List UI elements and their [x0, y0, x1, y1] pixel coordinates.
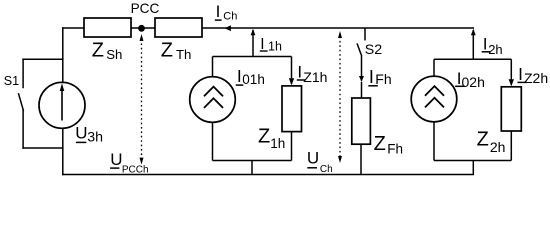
svg-text:01h: 01h [242, 72, 265, 87]
current arrow I_Ch on top bus [225, 25, 231, 31]
wire down to I02h circle [433, 59, 435, 76]
resistor Z_Th [155, 18, 202, 37]
svg-text:Z2h: Z2h [524, 70, 548, 86]
svg-text:S2: S2 [365, 42, 382, 58]
resistor Z_Fh [352, 98, 371, 144]
node PCC dot [138, 25, 145, 32]
svg-text:Ch: Ch [320, 164, 333, 175]
current source I01h circle [190, 77, 236, 123]
svg-text:PCC: PCC [131, 1, 160, 16]
wire down to I01h circle [212, 57, 214, 77]
svg-text:I: I [369, 67, 374, 87]
svg-text:I: I [297, 62, 302, 81]
svg-text:Sh: Sh [106, 47, 122, 62]
voltage source U3h arrow [61, 90, 63, 121]
svg-text:Fh: Fh [375, 71, 391, 87]
resistor Z_2h [501, 87, 521, 131]
wire left pair bottom horizontal [213, 160, 292, 162]
svg-text:Z: Z [374, 133, 386, 155]
svg-text:I: I [216, 2, 221, 21]
wire S2 upper stub [364, 28, 366, 41]
wire right pair down to bus [472, 161, 474, 175]
wire S1 lower vertical [22, 110, 24, 148]
svg-text:2h: 2h [488, 42, 502, 57]
wire left vertical lower [62, 128, 64, 174]
svg-text:1h: 1h [270, 136, 285, 151]
wire I_Z1h vertical [291, 57, 293, 85]
voltage arrow U_PCCh dashed [141, 39, 143, 159]
wire I_Fh vertical upper [361, 56, 363, 80]
svg-text:Z: Z [92, 39, 104, 61]
current arrow I_Z1h head [289, 78, 294, 85]
switch S2 blade [357, 43, 362, 56]
resistor Z_1h [282, 86, 302, 132]
current source I02h chevrons [425, 86, 444, 107]
svg-text:U: U [307, 149, 319, 168]
svg-text:3h: 3h [87, 130, 103, 146]
svg-text:PCCh: PCCh [122, 165, 149, 176]
wire top bus left segment [63, 27, 84, 29]
current arrow I_1h head [251, 29, 256, 36]
wire left pair down to bus [251, 161, 253, 175]
wire right pair top horizontal [434, 58, 511, 60]
wire below Z_1h [291, 132, 293, 161]
voltage arrow U_Ch dashed [339, 37, 341, 158]
wire top bus between Z_Sh and Z_Th [131, 27, 155, 29]
wire bottom bus [63, 174, 474, 176]
wire left pair top horizontal [213, 56, 292, 58]
current source I01h chevrons [204, 87, 223, 108]
svg-text:Th: Th [176, 47, 191, 62]
svg-text:I: I [518, 64, 523, 84]
resistor Z_Sh [84, 18, 131, 37]
svg-text:I: I [237, 66, 242, 86]
switch S1 blade [19, 94, 24, 110]
wire I_2h branch vertical [472, 30, 474, 59]
wire S1 bottom horizontal [23, 147, 63, 149]
wire I_Z2h vertical [510, 59, 512, 85]
svg-text:I: I [483, 35, 488, 53]
svg-text:U: U [110, 150, 122, 169]
voltage source U3h circle [39, 82, 85, 128]
svg-text:U: U [75, 123, 87, 142]
wire below I01h circle [212, 122, 214, 160]
wire I_Fh vertical lower [361, 82, 363, 98]
wire S1 upper stub [22, 59, 24, 87]
wire below Z_Fh [360, 144, 362, 174]
wire I_1h branch vertical [252, 30, 254, 57]
svg-text:1h: 1h [268, 40, 282, 54]
wire right pair bottom horizontal [434, 160, 511, 162]
svg-text:2h: 2h [490, 139, 506, 155]
current arrow I_Z2h head [509, 79, 514, 86]
svg-text:Z: Z [477, 128, 489, 150]
svg-text:Ch: Ch [223, 11, 237, 23]
wire below I02h circle [433, 122, 435, 161]
svg-text:Z: Z [258, 126, 270, 148]
svg-text:02h: 02h [462, 74, 485, 90]
wire below Z_2h [510, 131, 512, 161]
svg-text:Z1h: Z1h [303, 69, 327, 85]
svg-text:Fh: Fh [387, 141, 403, 156]
wire left vertical upper [62, 28, 64, 83]
current arrow I_Fh head [359, 76, 364, 82]
svg-text:Z: Z [161, 39, 173, 61]
svg-text:S1: S1 [4, 74, 19, 88]
wire S1 top horizontal [23, 58, 63, 60]
wire top bus right long segment [202, 27, 473, 29]
current arrow I_2h head [471, 29, 476, 36]
current source I02h circle [411, 76, 457, 122]
